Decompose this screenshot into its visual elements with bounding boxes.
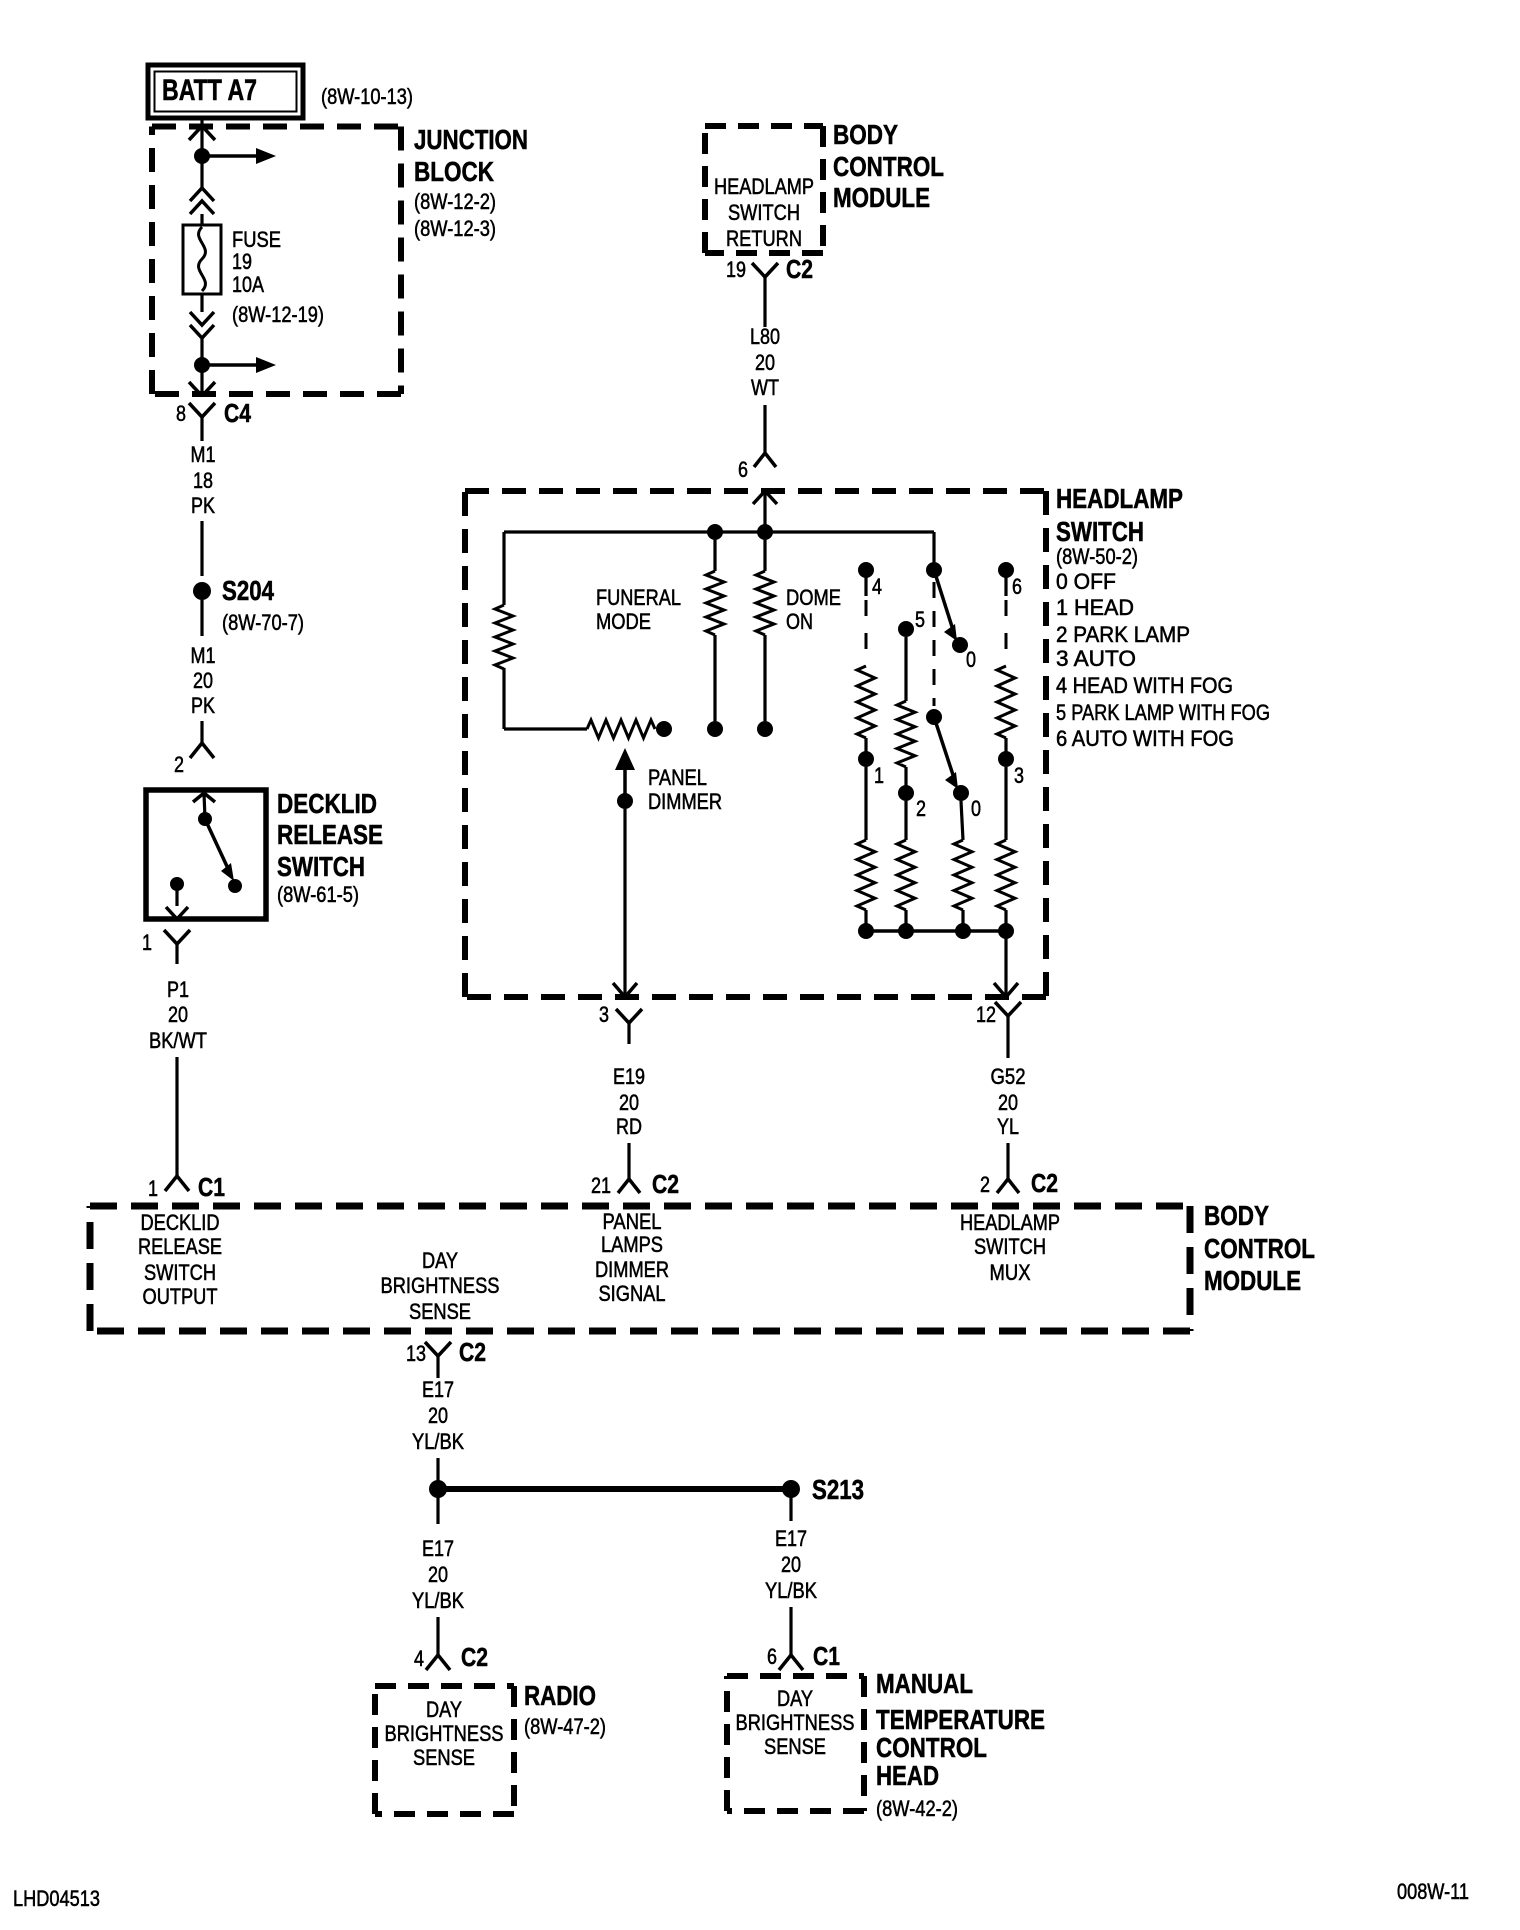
connector C2 pin 2 into BCM [980, 1168, 1058, 1198]
svg-text:YL/BK: YL/BK [765, 1578, 817, 1603]
node dot mux c [955, 923, 971, 939]
wire branch arrow right upper [202, 148, 276, 164]
svg-text:HEADLAMP: HEADLAMP [960, 1210, 1060, 1235]
switch output contact [170, 877, 184, 906]
svg-text:5 PARK LAMP WITH FOG: 5 PARK LAMP WITH FOG [1056, 700, 1270, 725]
svg-text:10A: 10A [232, 272, 264, 297]
svg-text:DIMMER: DIMMER [648, 789, 722, 814]
svg-text:CONTROL: CONTROL [1204, 1233, 1315, 1264]
svg-text:E17: E17 [422, 1536, 454, 1561]
wire [789, 1489, 792, 1521]
connector C2 pin 13 below BCM [406, 1337, 486, 1378]
svg-text:BODY: BODY [1204, 1200, 1269, 1231]
wire [200, 294, 203, 312]
wire [200, 521, 203, 576]
resistor col5 lower [897, 840, 915, 910]
connector C4 pin 8 [176, 398, 251, 441]
svg-text:1 HEAD: 1 HEAD [1056, 595, 1134, 620]
svg-text:MODE: MODE [596, 609, 651, 634]
svg-text:DOME: DOME [786, 585, 841, 610]
node junction dot upper [194, 148, 210, 164]
node dot mux a [858, 923, 874, 939]
switch wiper arm lower [934, 717, 958, 789]
svg-text:(8W-50-2): (8W-50-2) [1056, 544, 1138, 569]
connector pin 2 decklid switch [174, 743, 214, 777]
wire [864, 910, 867, 931]
svg-text:C2: C2 [1031, 1168, 1058, 1198]
svg-text:DIMMER: DIMMER [595, 1257, 669, 1282]
wire wiper feed vertical [932, 532, 935, 562]
wire [436, 1458, 439, 1482]
svg-text:BRIGHTNESS: BRIGHTNESS [381, 1273, 500, 1298]
resistor panel dimmer rheostat horizontal [587, 720, 655, 738]
node dot dome bottom [757, 721, 773, 737]
svg-text:C2: C2 [459, 1337, 486, 1367]
svg-text:(8W-12-2): (8W-12-2) [414, 189, 496, 214]
svg-text:C1: C1 [198, 1172, 225, 1202]
svg-text:PK: PK [191, 493, 215, 518]
connector C1 pin 6 into temp control [767, 1641, 840, 1671]
label DAY BRIGHTNESS SENSE bcm [381, 1248, 500, 1324]
label BODY CONTROL MODULE upper [833, 119, 944, 213]
resistor col6 lower [997, 840, 1015, 910]
svg-text:PANEL: PANEL [648, 765, 707, 790]
label DOME ON [786, 585, 841, 634]
wire [864, 738, 867, 752]
svg-text:HEADLAMP: HEADLAMP [714, 174, 814, 199]
svg-text:(8W-70-7): (8W-70-7) [222, 610, 304, 635]
label PANEL DIMMER [648, 765, 722, 814]
connector pin 6 headlamp switch [738, 453, 776, 482]
connector C2 pin 4 into radio [414, 1642, 488, 1672]
svg-text:SWITCH: SWITCH [1056, 516, 1144, 547]
wire dashed col6 [1005, 600, 1008, 664]
manual temperature control head dashed box [727, 1676, 864, 1811]
svg-text:L80: L80 [750, 324, 780, 349]
svg-text:SENSE: SENSE [409, 1299, 471, 1324]
svg-text:19: 19 [232, 249, 252, 274]
svg-text:FUNERAL: FUNERAL [596, 585, 681, 610]
decklid release switch box [146, 790, 266, 919]
svg-text:SWITCH: SWITCH [974, 1234, 1046, 1259]
power feed box BATT A7 [148, 65, 303, 118]
svg-text:LAMPS: LAMPS [601, 1232, 663, 1257]
switch contact 0 lower [953, 785, 981, 821]
svg-text:S204: S204 [222, 575, 274, 606]
svg-text:DAY: DAY [422, 1248, 458, 1273]
node dot funeral bottom [707, 721, 723, 737]
svg-text:BRIGHTNESS: BRIGHTNESS [385, 1721, 504, 1746]
wire label E17 20 YL/BK upper [412, 1377, 464, 1454]
wire [1006, 1143, 1009, 1179]
svg-text:4 HEAD WITH FOG: 4 HEAD WITH FOG [1056, 673, 1233, 698]
svg-text:PANEL: PANEL [603, 1209, 662, 1234]
connector pin 3 [599, 1002, 642, 1044]
svg-text:SWITCH: SWITCH [277, 851, 365, 882]
wire [200, 156, 203, 190]
svg-text:LHD04513: LHD04513 [13, 1886, 100, 1911]
resistor col5 upper [897, 701, 915, 767]
wire label G52 20 YL [991, 1064, 1026, 1139]
svg-text:19: 19 [726, 257, 746, 282]
svg-text:SENSE: SENSE [413, 1745, 475, 1770]
wire batt feed entry arrow [189, 117, 215, 156]
svg-text:ON: ON [786, 609, 813, 634]
wire [904, 767, 907, 786]
svg-text:18: 18 [193, 468, 213, 493]
decklid switch exit arrow [166, 907, 188, 919]
svg-text:1: 1 [142, 930, 152, 955]
svg-text:3: 3 [1014, 763, 1024, 788]
resistor dome on [756, 540, 774, 721]
node dot mux d [998, 923, 1014, 939]
wire [904, 637, 907, 701]
wire left branch down [502, 532, 505, 605]
svg-text:DECKLID: DECKLID [141, 1210, 220, 1235]
label 008W-11 [1397, 1879, 1469, 1904]
wire [436, 1617, 439, 1655]
svg-text:BODY: BODY [833, 119, 898, 150]
label DECKLID RELEASE SWITCH (8W-61-5) [277, 788, 383, 907]
svg-text:BATT A7: BATT A7 [162, 74, 257, 107]
switch contact 4 [858, 562, 882, 599]
wire label M1 18 PK [191, 442, 216, 518]
svg-text:OUTPUT: OUTPUT [143, 1284, 218, 1309]
svg-text:5: 5 [915, 607, 925, 632]
headlamp box exit arrow pin3 [613, 983, 637, 997]
svg-text:HEADLAMP: HEADLAMP [1056, 483, 1183, 514]
svg-text:20: 20 [428, 1403, 448, 1428]
label DECKLID RELEASE SWITCH OUTPUT [138, 1210, 222, 1309]
wire label E17 20 YL/BK left [412, 1536, 464, 1613]
svg-text:M1: M1 [191, 643, 216, 668]
splice S213 [782, 1474, 864, 1505]
svg-text:MUX: MUX [990, 1260, 1031, 1285]
wire [200, 214, 203, 226]
svg-text:0: 0 [971, 796, 981, 821]
svg-text:C4: C4 [224, 398, 251, 428]
wire [961, 801, 963, 840]
wire label P1 20 BK/WT [149, 977, 207, 1053]
switch arm with arrowhead [205, 819, 234, 881]
svg-text:BK/WT: BK/WT [149, 1028, 207, 1053]
switch gang dashed link [933, 582, 936, 706]
svg-text:2: 2 [980, 1172, 990, 1197]
svg-text:20: 20 [781, 1552, 801, 1577]
switch contact 0 upper [952, 637, 976, 672]
wire [789, 1607, 792, 1655]
svg-text:1: 1 [874, 763, 884, 788]
wire [864, 767, 867, 840]
wire dashed col4 [865, 600, 868, 664]
junction block dashed box [152, 127, 401, 395]
svg-text:DAY: DAY [777, 1686, 813, 1711]
svg-text:4: 4 [414, 1646, 424, 1671]
wire [904, 801, 907, 840]
node junction dot lower [194, 357, 210, 373]
svg-text:YL/BK: YL/BK [412, 1588, 464, 1613]
switch wiper arm upper [934, 570, 957, 641]
connector pin 3 wire label E19 20 RD [613, 1064, 645, 1139]
wire mux bus bottom [866, 929, 1006, 933]
label MANUAL TEMPERATURE CONTROL HEAD (8W-42-2) [876, 1668, 1045, 1821]
svg-text:3 AUTO: 3 AUTO [1056, 646, 1136, 671]
wire [175, 1057, 178, 1176]
svg-text:SWITCH: SWITCH [728, 200, 800, 225]
connector C2 pin 19 [726, 254, 813, 327]
svg-text:6: 6 [1012, 574, 1022, 599]
svg-text:YL: YL [997, 1114, 1019, 1139]
node dot feed entry [757, 524, 773, 540]
svg-text:SENSE: SENSE [764, 1734, 826, 1759]
resistor panel dimmer upper left [495, 605, 513, 669]
svg-text:SWITCH: SWITCH [144, 1260, 216, 1285]
wire bus top horizontal [504, 530, 934, 533]
wire [200, 721, 203, 743]
body control module lower dashed box [90, 1206, 1190, 1331]
connector C2 pin 21 into BCM [591, 1169, 679, 1199]
svg-text:TEMPERATURE: TEMPERATURE [876, 1704, 1045, 1735]
wire wiper down [623, 809, 626, 995]
wire label L80 20 WT [750, 324, 780, 400]
resistor col0 lower [954, 840, 972, 910]
svg-text:G52: G52 [991, 1064, 1026, 1089]
svg-text:E17: E17 [775, 1526, 807, 1551]
decklid switch entry arrow [193, 793, 215, 819]
svg-text:E19: E19 [613, 1064, 645, 1089]
svg-text:(8W-42-2): (8W-42-2) [876, 1796, 958, 1821]
svg-text:BLOCK: BLOCK [414, 156, 494, 187]
svg-text:0: 0 [966, 647, 976, 672]
svg-text:C2: C2 [461, 1642, 488, 1672]
wire label E17 20 YL/BK right [765, 1526, 817, 1603]
svg-text:20: 20 [168, 1002, 188, 1027]
switch contact lower right [228, 879, 242, 893]
splice S204 [193, 575, 304, 635]
label DAY BRIGHTNESS SENSE radio [385, 1697, 504, 1770]
svg-text:(8W-12-19): (8W-12-19) [232, 302, 324, 327]
switch contact 6 [998, 562, 1022, 599]
label JUNCTION BLOCK [414, 124, 528, 241]
resistor col4 upper [857, 666, 875, 738]
svg-text:(8W-12-3): (8W-12-3) [414, 216, 496, 241]
label FUNERAL MODE [596, 585, 681, 634]
connector pin 12 [976, 1002, 1021, 1058]
svg-text:4: 4 [872, 574, 882, 599]
wire [904, 910, 907, 931]
svg-text:2: 2 [174, 752, 184, 777]
node dot funeral branch [707, 524, 723, 540]
node dot mux b [898, 923, 914, 939]
label PANEL LAMPS DIMMER SIGNAL [595, 1209, 669, 1306]
svg-text:2 PARK LAMP: 2 PARK LAMP [1056, 622, 1190, 647]
svg-text:20: 20 [619, 1090, 639, 1115]
svg-text:13: 13 [406, 1341, 426, 1366]
svg-text:CONTROL: CONTROL [833, 151, 944, 182]
svg-text:12: 12 [976, 1002, 996, 1027]
resistor col4 lower [857, 840, 875, 910]
svg-text:2: 2 [916, 796, 926, 821]
svg-text:C2: C2 [786, 254, 813, 284]
wire [627, 1143, 630, 1179]
svg-text:YL/BK: YL/BK [412, 1429, 464, 1454]
node splice branch dot [429, 1480, 447, 1498]
svg-text:(8W-61-5): (8W-61-5) [277, 882, 359, 907]
svg-text:20: 20 [755, 350, 775, 375]
svg-text:6 AUTO WITH FOG: 6 AUTO WITH FOG [1056, 726, 1234, 751]
label BODY CONTROL MODULE lower [1204, 1200, 1315, 1296]
wire [200, 365, 203, 394]
label FUSE 19 10A (8W-12-19) [232, 227, 324, 327]
label HEADLAMP SWITCH (8W-50-2) legend [1056, 483, 1270, 751]
svg-text:MODULE: MODULE [1204, 1265, 1301, 1296]
wire splice bus [438, 1486, 791, 1492]
headlamp switch entry arrow [753, 491, 777, 532]
svg-text:RELEASE: RELEASE [138, 1234, 222, 1259]
svg-text:008W-11: 008W-11 [1397, 1879, 1469, 1904]
switch contact 5 [898, 607, 925, 637]
svg-text:8: 8 [176, 401, 186, 426]
panel dimmer wiper arrow [615, 748, 635, 794]
wire [1004, 738, 1007, 752]
label HEADLAMP SWITCH MUX [960, 1210, 1060, 1285]
wire [436, 1489, 439, 1524]
wire branch arrow right lower [202, 357, 276, 373]
svg-text:DECKLID: DECKLID [277, 788, 377, 819]
switch wiper lower common [926, 709, 942, 725]
headlamp switch dashed box [465, 491, 1046, 997]
svg-text:E17: E17 [422, 1377, 454, 1402]
svg-text:CONTROL: CONTROL [876, 1732, 987, 1763]
node dot rheostat end [656, 721, 672, 737]
switch tap 1 [858, 751, 884, 788]
svg-text:SIGNAL: SIGNAL [599, 1281, 666, 1306]
fuse 19 10A [183, 225, 221, 294]
svg-text:20: 20 [998, 1090, 1018, 1115]
radio dashed box [375, 1686, 514, 1814]
svg-text:WT: WT [751, 375, 779, 400]
headlamp box exit arrow pin12 [994, 983, 1018, 997]
svg-text:(8W-47-2): (8W-47-2) [524, 1714, 606, 1739]
svg-text:S213: S213 [812, 1474, 864, 1505]
svg-text:(8W-10-13): (8W-10-13) [321, 84, 413, 109]
svg-text:RD: RD [616, 1114, 642, 1139]
wire label M1 20 PK [191, 643, 216, 718]
switch tap 3 [998, 751, 1024, 788]
wire [200, 600, 203, 636]
svg-text:3: 3 [599, 1002, 609, 1027]
svg-text:21: 21 [591, 1173, 611, 1198]
svg-text:RETURN: RETURN [726, 226, 802, 251]
node dot wiper [617, 793, 633, 809]
switch common contact [198, 812, 212, 826]
switch wiper upper common [926, 562, 942, 578]
svg-text:P1: P1 [167, 977, 189, 1002]
svg-text:6: 6 [738, 457, 748, 482]
svg-text:RELEASE: RELEASE [277, 819, 383, 850]
svg-text:HEAD: HEAD [876, 1760, 939, 1791]
body control module upper dashed box [705, 126, 823, 253]
wire [200, 338, 203, 365]
connector C1 pin 1 into BCM [148, 1172, 225, 1202]
svg-text:RADIO: RADIO [524, 1680, 596, 1711]
label DAY BRIGHTNESS SENSE mtc [736, 1686, 855, 1759]
svg-text:BRIGHTNESS: BRIGHTNESS [736, 1710, 855, 1735]
svg-text:0 OFF: 0 OFF [1056, 569, 1116, 594]
wire [961, 910, 964, 931]
label LHD04513 [13, 1886, 100, 1911]
switch tap 2 [898, 785, 926, 821]
svg-text:M1: M1 [191, 442, 216, 467]
svg-text:PK: PK [191, 693, 215, 718]
label HEADLAMP SWITCH RETURN [714, 174, 814, 251]
svg-text:20: 20 [193, 668, 213, 693]
svg-text:MODULE: MODULE [833, 182, 930, 213]
junction block exit arrow down [189, 382, 215, 396]
svg-text:C1: C1 [813, 1641, 840, 1671]
label (8W-10-13) [321, 84, 413, 109]
wire [504, 668, 587, 729]
wire [1004, 767, 1007, 840]
resistor col6 upper [997, 666, 1015, 738]
svg-text:20: 20 [428, 1562, 448, 1587]
in-line connector chevrons down [190, 312, 214, 338]
wire [1004, 931, 1007, 995]
svg-text:DAY: DAY [426, 1697, 462, 1722]
svg-text:JUNCTION: JUNCTION [414, 124, 528, 155]
svg-text:MANUAL: MANUAL [876, 1668, 973, 1699]
in-line connector chevrons up [190, 188, 214, 214]
svg-text:1: 1 [148, 1176, 158, 1201]
label RADIO (8W-47-2) [524, 1680, 606, 1739]
wire [1004, 910, 1007, 931]
resistor funeral mode [706, 540, 724, 721]
svg-text:C2: C2 [652, 1169, 679, 1199]
wire [763, 405, 766, 453]
connector pin 1 below decklid switch [142, 930, 190, 964]
svg-text:6: 6 [767, 1644, 777, 1669]
